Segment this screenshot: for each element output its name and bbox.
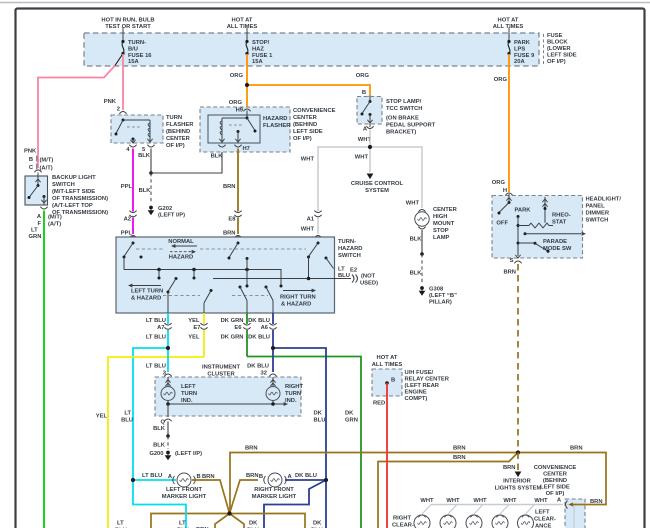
headlight switch lower contact arm bbox=[517, 242, 520, 245]
svg-text:PANEL: PANEL bbox=[586, 204, 606, 210]
svg-text:CRUISE CONTROL: CRUISE CONTROL bbox=[351, 181, 404, 187]
svg-text:ALL TIMES: ALL TIMES bbox=[227, 24, 258, 30]
svg-text:G202: G202 bbox=[158, 206, 172, 212]
connector at pin 4 bbox=[129, 145, 136, 147]
connector at stop lamp switch A bbox=[366, 126, 373, 128]
svg-text:PILLAR): PILLAR) bbox=[429, 300, 452, 306]
svg-text:20A: 20A bbox=[514, 59, 525, 65]
svg-text:LEFT TURN: LEFT TURN bbox=[131, 289, 163, 295]
instrument cluster box bbox=[155, 377, 301, 416]
svg-text:BRN: BRN bbox=[246, 473, 259, 479]
svg-text:HIGH: HIGH bbox=[433, 214, 448, 220]
svg-text:DK: DK bbox=[313, 521, 322, 527]
svg-text:RIGHT TURN: RIGHT TURN bbox=[280, 295, 316, 301]
svg-text:PEDAL SUPPORT: PEDAL SUPPORT bbox=[386, 123, 436, 129]
svg-text:& HAZARD: & HAZARD bbox=[281, 302, 311, 308]
svg-text:ORG: ORG bbox=[494, 77, 508, 83]
svg-text:STOP LAMP/: STOP LAMP/ bbox=[386, 99, 422, 105]
svg-text:DK BLU: DK BLU bbox=[248, 335, 270, 341]
switch arm (BRN feed) bbox=[237, 242, 240, 245]
cluster ground bus bbox=[168, 403, 284, 405]
svg-text:OF I/P): OF I/P) bbox=[293, 136, 312, 142]
connector at pin H7 bbox=[234, 145, 241, 147]
svg-text:YEL: YEL bbox=[188, 335, 200, 341]
svg-text:HOT AT: HOT AT bbox=[232, 18, 253, 24]
wire LT BLU to cluster pin 3 bbox=[167, 348, 169, 372]
connector at backup light switch input bbox=[34, 170, 41, 172]
wire BLK dashed to G200 bbox=[167, 436, 169, 449]
svg-text:DK: DK bbox=[345, 411, 354, 417]
switch arm to pin A6 bbox=[265, 286, 268, 289]
svg-text:USED): USED) bbox=[360, 281, 378, 287]
switch arm (PPL feed) bbox=[132, 242, 135, 245]
hazard position dashed track bbox=[136, 248, 164, 250]
svg-text:STOP: STOP bbox=[433, 228, 449, 234]
svg-text:B: B bbox=[29, 157, 33, 163]
svg-text:TURN-: TURN- bbox=[338, 239, 356, 245]
wire LT BLU branch to left front marker bbox=[133, 348, 168, 480]
U/H fuse/relay center box bbox=[372, 369, 402, 396]
svg-text:WHT: WHT bbox=[503, 498, 517, 504]
page top edge line bbox=[0, 2, 650, 4]
wire BLK cluster to splice bbox=[167, 422, 169, 437]
svg-text:RELAY CENTER: RELAY CENTER bbox=[405, 377, 450, 383]
svg-text:BRN: BRN bbox=[223, 184, 236, 190]
svg-text:ALL TIMES: ALL TIMES bbox=[493, 24, 524, 30]
connector at hazard BLK pin bbox=[218, 145, 225, 147]
svg-text:HAZARD: HAZARD bbox=[169, 255, 193, 261]
wire BRN left front marker to hub bbox=[192, 480, 230, 514]
connector at CHMSL top bbox=[418, 210, 425, 212]
svg-text:DK BLU: DK BLU bbox=[295, 473, 317, 479]
lamp DS2 right turn indicator bbox=[272, 377, 274, 386]
svg-text:(NOT: (NOT bbox=[361, 274, 376, 280]
wire BLK dashed to G202 bbox=[150, 173, 152, 204]
connector A2 bbox=[129, 211, 136, 217]
svg-text:A7: A7 bbox=[157, 325, 164, 331]
wire DK GRN to right rear bbox=[247, 357, 361, 528]
svg-text:BRN: BRN bbox=[223, 231, 236, 237]
svg-text:15A: 15A bbox=[252, 59, 263, 65]
connector at backup light switch output bbox=[40, 207, 47, 209]
svg-text:PPL: PPL bbox=[121, 231, 133, 237]
svg-text:RIGHT FRONT: RIGHT FRONT bbox=[254, 487, 294, 493]
svg-text:(A/T-LEFT TOP: (A/T-LEFT TOP bbox=[52, 203, 93, 209]
switch arm to pin E6 bbox=[239, 286, 242, 289]
svg-text:BLU: BLU bbox=[314, 418, 326, 424]
stop lamp/TCC switch S2 box bbox=[357, 97, 382, 125]
svg-text:E8: E8 bbox=[228, 217, 236, 223]
svg-text:H7: H7 bbox=[243, 146, 250, 152]
junction BLK splice bbox=[166, 434, 170, 438]
svg-text:LPS: LPS bbox=[514, 47, 525, 53]
svg-text:TURN-: TURN- bbox=[128, 40, 146, 46]
svg-text:BACKUP LIGHT: BACKUP LIGHT bbox=[52, 175, 96, 181]
wire DK BLU main down bbox=[325, 480, 327, 528]
arrow to interior lights system bbox=[515, 472, 522, 478]
svg-text:32: 32 bbox=[261, 371, 267, 377]
svg-text:OF I/P): OF I/P) bbox=[546, 491, 565, 497]
svg-text:HOT AT: HOT AT bbox=[498, 18, 519, 24]
fuse block location label bbox=[543, 34, 545, 65]
svg-text:S: S bbox=[510, 258, 514, 264]
svg-text:(LEFT I/P): (LEFT I/P) bbox=[158, 213, 185, 219]
svg-text:H: H bbox=[503, 188, 507, 194]
switch common bus bbox=[124, 270, 281, 287]
turn flasher internals bbox=[122, 119, 125, 122]
stop lamp switch internals bbox=[369, 97, 371, 102]
wire BRN into switch bbox=[237, 236, 239, 243]
svg-text:FUSE: FUSE bbox=[547, 33, 563, 39]
svg-text:B/U: B/U bbox=[128, 47, 138, 53]
svg-text:GRN: GRN bbox=[29, 234, 42, 240]
svg-text:Q: Q bbox=[160, 420, 165, 426]
switch arm to pin E7 bbox=[210, 289, 213, 292]
hazard flasher internals bbox=[246, 111, 248, 119]
svg-text:BRN: BRN bbox=[453, 446, 466, 452]
svg-text:DK GRN: DK GRN bbox=[221, 335, 244, 341]
wire PNK from fuse 16 to backup light switch bbox=[115, 54, 123, 66]
label RIGHT TURN & HAZARD with arrow bbox=[283, 290, 312, 292]
headlight switch parade mode contact bbox=[524, 232, 527, 235]
lamp DS9 clearance lamp 5 bbox=[526, 505, 535, 515]
fuse F1 STOP/HAZ 15A bbox=[246, 28, 248, 42]
lamp DS7 clearance lamp 3 bbox=[474, 505, 483, 515]
svg-text:FLASHER: FLASHER bbox=[263, 123, 291, 129]
svg-text:COMPT): COMPT) bbox=[405, 396, 428, 402]
svg-text:INTERIOR: INTERIOR bbox=[503, 479, 532, 485]
svg-text:DK BLU: DK BLU bbox=[247, 364, 269, 370]
svg-text:YEL: YEL bbox=[188, 318, 200, 324]
svg-text:WHT: WHT bbox=[446, 498, 460, 504]
svg-text:DK BLU: DK BLU bbox=[248, 318, 270, 324]
switch arm (WHT feed) bbox=[317, 242, 320, 245]
svg-text:OF TRANSMISSION): OF TRANSMISSION) bbox=[52, 196, 108, 202]
junction ORG splice bbox=[245, 83, 249, 87]
svg-text:HOT IN RUN, BULB: HOT IN RUN, BULB bbox=[101, 18, 154, 24]
svg-text:LT: LT bbox=[124, 411, 131, 417]
svg-text:BLK: BLK bbox=[153, 443, 166, 449]
wire BRN hub stub right rear bbox=[230, 514, 245, 528]
svg-text:CLEAR-: CLEAR- bbox=[392, 523, 414, 528]
svg-text:A1: A1 bbox=[307, 217, 315, 223]
svg-text:SWITCH: SWITCH bbox=[586, 218, 609, 224]
svg-text:B: B bbox=[197, 474, 201, 480]
ground G308 bbox=[420, 286, 424, 290]
wire BRN arrow into convenience pin A bbox=[573, 504, 585, 506]
svg-text:WHT: WHT bbox=[301, 157, 315, 163]
connector at switch PPL pin bbox=[129, 236, 136, 238]
svg-text:ORG: ORG bbox=[229, 100, 243, 106]
wire DK BLU branch to right front marker bbox=[273, 348, 326, 480]
svg-text:BLU: BLU bbox=[338, 273, 350, 279]
wire DK BLU to cluster pin 32 bbox=[272, 348, 274, 372]
headlight switch rheostat bbox=[518, 225, 529, 227]
svg-text:BRN: BRN bbox=[570, 446, 583, 452]
wire PPL turn flasher to switch bbox=[132, 149, 134, 212]
svg-text:G200: G200 bbox=[149, 451, 163, 457]
svg-text:(BEHIND: (BEHIND bbox=[543, 478, 567, 484]
svg-text:PARADE: PARADE bbox=[543, 239, 567, 245]
convenience center box (bottom) bbox=[565, 499, 585, 528]
svg-text:BRN: BRN bbox=[453, 455, 466, 461]
bus contact stubs bbox=[158, 270, 160, 278]
svg-text:F: F bbox=[37, 221, 41, 227]
svg-text:E6: E6 bbox=[234, 325, 242, 331]
svg-text:LT BLU: LT BLU bbox=[146, 318, 166, 324]
convenience center box (hazard flasher) bbox=[200, 107, 290, 152]
wire ORG junction to hazard flasher H9 bbox=[246, 85, 248, 108]
wire YEL to left rear bbox=[108, 357, 204, 528]
svg-text:DK: DK bbox=[314, 411, 323, 417]
svg-text:TEST OR START: TEST OR START bbox=[105, 24, 151, 30]
svg-text:BLK: BLK bbox=[153, 426, 166, 432]
svg-text:LT BLU: LT BLU bbox=[146, 335, 166, 341]
svg-text:LEFT SIDE: LEFT SIDE bbox=[293, 129, 323, 135]
svg-text:LEFT SIDE: LEFT SIDE bbox=[547, 53, 577, 59]
svg-text:CONVENIENCE: CONVENIENCE bbox=[534, 465, 577, 471]
svg-text:(M/T): (M/T) bbox=[40, 158, 54, 164]
svg-text:(BEHIND: (BEHIND bbox=[166, 129, 190, 135]
svg-text:BRN: BRN bbox=[590, 499, 603, 505]
svg-text:GRN: GRN bbox=[345, 418, 358, 424]
svg-text:LAMP: LAMP bbox=[433, 235, 450, 241]
svg-text:PPL: PPL bbox=[121, 184, 133, 190]
svg-text:STOP/: STOP/ bbox=[252, 40, 270, 46]
svg-text:HAZ: HAZ bbox=[252, 47, 264, 53]
wire LT BLU to left front marker bbox=[133, 479, 176, 481]
svg-text:& HAZARD: & HAZARD bbox=[131, 296, 161, 302]
svg-text:CENTER: CENTER bbox=[543, 472, 568, 478]
svg-text:HEADLIGHT/: HEADLIGHT/ bbox=[586, 197, 622, 203]
svg-text:TURN: TURN bbox=[181, 391, 197, 397]
svg-text:SYSTEM: SYSTEM bbox=[365, 188, 389, 194]
svg-text:LT: LT bbox=[179, 521, 186, 527]
svg-text:LEFT: LEFT bbox=[535, 510, 550, 516]
svg-text:LIGHTS SYSTEM: LIGHTS SYSTEM bbox=[495, 486, 542, 492]
svg-text:BLK: BLK bbox=[410, 237, 423, 243]
wire BLK dashed to G308 bbox=[421, 254, 423, 285]
svg-text:(M/T-LEFT SIDE: (M/T-LEFT SIDE bbox=[52, 189, 95, 195]
lower hazard dashed tracks bbox=[163, 295, 200, 297]
wire PNK from fuse 16 to turn flasher pin 2 bbox=[122, 54, 124, 110]
svg-text:TCC SWITCH: TCC SWITCH bbox=[386, 106, 422, 112]
svg-text:RED: RED bbox=[373, 401, 385, 407]
junction BRN marker hub bbox=[227, 511, 231, 515]
connector at H9 bbox=[243, 109, 250, 111]
svg-text:ORG: ORG bbox=[492, 180, 506, 186]
svg-text:(LEFT I/P): (LEFT I/P) bbox=[175, 451, 202, 457]
svg-text:RIGHT: RIGHT bbox=[285, 384, 303, 390]
svg-text:SWITCH: SWITCH bbox=[338, 253, 361, 259]
wire BRN dashed stub to interior lights bbox=[517, 453, 519, 471]
svg-text:NORMAL: NORMAL bbox=[168, 239, 194, 245]
fuse F9 PARK LPS 20A bbox=[508, 28, 510, 42]
svg-text:G308: G308 bbox=[429, 287, 444, 293]
svg-text:15A: 15A bbox=[128, 59, 139, 65]
svg-text:TURN: TURN bbox=[285, 391, 301, 397]
svg-text:CENTER: CENTER bbox=[166, 136, 191, 142]
wire WHT splice to center high mount stop lamp bbox=[370, 147, 422, 208]
pin Q output bbox=[167, 404, 169, 417]
svg-text:BLOCK: BLOCK bbox=[547, 40, 568, 46]
label HAZARD with dashed arrow bbox=[170, 251, 192, 253]
svg-text:PARK: PARK bbox=[515, 208, 532, 214]
svg-text:E2: E2 bbox=[350, 268, 357, 274]
svg-text:TURN: TURN bbox=[166, 115, 182, 121]
svg-text:DK GRN: DK GRN bbox=[221, 318, 244, 324]
wire BRN hazard flasher H7 down bbox=[237, 149, 239, 212]
svg-text:LT: LT bbox=[31, 228, 38, 234]
svg-text:HOT AT: HOT AT bbox=[377, 355, 398, 361]
connector at convenience pin A bbox=[566, 501, 568, 509]
svg-text:(A/T): (A/T) bbox=[48, 222, 61, 228]
svg-text:B: B bbox=[259, 474, 263, 480]
junction LT BLU splice bbox=[166, 346, 170, 350]
svg-text:ORG: ORG bbox=[356, 73, 370, 79]
wire BRN feed line 1 bbox=[230, 453, 518, 514]
svg-text:WHT: WHT bbox=[301, 227, 315, 233]
turn-hazard switch S4 box bbox=[116, 237, 335, 313]
svg-text:LEFT: LEFT bbox=[181, 384, 196, 390]
wire BRN dashed headlight switch to tail splice bbox=[517, 264, 519, 448]
wire BRN to convenience center bbox=[518, 453, 606, 505]
connector at cluster pin 3 bbox=[164, 374, 171, 376]
svg-text:BLK: BLK bbox=[211, 154, 224, 160]
wire BLK hazard flasher ground leg bbox=[151, 149, 222, 174]
connector at switch BRN pin bbox=[234, 236, 241, 238]
svg-text:IND.: IND. bbox=[285, 398, 297, 404]
svg-text:(A/T): (A/T) bbox=[40, 166, 53, 172]
wire PPL into switch bbox=[132, 236, 134, 243]
svg-text:DIMMER: DIMMER bbox=[586, 211, 610, 217]
svg-text:E7: E7 bbox=[193, 325, 200, 331]
switch output bus to E2 bbox=[213, 278, 335, 280]
wire BLK CHMSL to splice bbox=[421, 230, 423, 254]
wire BLK from pin 5 to ground splice bbox=[150, 149, 152, 174]
turn flasher U1 box bbox=[111, 115, 163, 143]
svg-text:A2: A2 bbox=[124, 217, 131, 223]
wire DK BLU branch to right rear bbox=[264, 480, 326, 528]
connector at pin 5 bbox=[147, 145, 154, 147]
svg-text:CENTER: CENTER bbox=[293, 115, 318, 121]
svg-text:ORG: ORG bbox=[230, 73, 244, 79]
svg-text:LEFT SIDE: LEFT SIDE bbox=[540, 485, 570, 491]
svg-text:B: B bbox=[362, 90, 366, 96]
lamp DS5 clearance lamp 1 bbox=[422, 505, 431, 515]
wire BRN right front marker to hub bbox=[230, 480, 259, 514]
svg-text:BRACKET): BRACKET) bbox=[386, 130, 416, 136]
junction DK BLU splice bbox=[271, 346, 275, 350]
svg-text:ANCE: ANCE bbox=[535, 524, 552, 528]
svg-text:INSTRUMENT: INSTRUMENT bbox=[202, 365, 240, 371]
svg-text:BLU: BLU bbox=[121, 418, 133, 424]
connector A1 bbox=[314, 211, 321, 217]
svg-text:IND.: IND. bbox=[181, 398, 193, 404]
ground G200 bbox=[166, 451, 170, 455]
connector at headlight switch H bbox=[505, 193, 512, 195]
switch arm to pin A7 bbox=[175, 277, 178, 280]
junction BRN tail splice bbox=[516, 450, 520, 454]
svg-text:CENTER: CENTER bbox=[433, 207, 458, 213]
svg-text:HAZARD: HAZARD bbox=[338, 246, 362, 252]
svg-text:RHEO-: RHEO- bbox=[552, 213, 571, 219]
junction LT BLU marker splice bbox=[131, 478, 135, 482]
wire BRN hub cross line bbox=[151, 514, 305, 528]
svg-text:WHT: WHT bbox=[473, 498, 487, 504]
svg-text:LEFT FRONT: LEFT FRONT bbox=[166, 487, 203, 493]
svg-text:MARKER LIGHT: MARKER LIGHT bbox=[252, 494, 297, 500]
svg-text:2: 2 bbox=[117, 107, 120, 113]
svg-text:STAT: STAT bbox=[552, 220, 567, 226]
svg-text:MARKER LIGHT: MARKER LIGHT bbox=[162, 494, 207, 500]
svg-text:BLK: BLK bbox=[138, 153, 151, 159]
svg-text:BRN: BRN bbox=[202, 474, 215, 480]
connector at CHMSL bottom bbox=[418, 227, 425, 229]
svg-text:LT BLU: LT BLU bbox=[146, 364, 166, 370]
svg-text:WHT: WHT bbox=[355, 155, 369, 161]
label LEFT TURN & HAZARD with arrow bbox=[131, 285, 161, 287]
svg-text:LT: LT bbox=[117, 521, 124, 527]
switch centre vertical contact bbox=[246, 257, 249, 260]
arrow to cruise control system bbox=[367, 174, 374, 180]
svg-text:CLEAR-: CLEAR- bbox=[534, 517, 556, 523]
junction BLK splice bbox=[420, 252, 424, 256]
svg-text:RIGHT: RIGHT bbox=[393, 516, 411, 522]
backup light switch internals bbox=[37, 176, 39, 184]
connector at headlight switch S bbox=[514, 261, 521, 263]
svg-text:CONVENIENCE: CONVENIENCE bbox=[293, 108, 336, 114]
headlight switch internals - off/park contacts bbox=[508, 194, 510, 202]
svg-text:(ON BRAKE: (ON BRAKE bbox=[386, 116, 419, 122]
wire WHT splice to cruise control bbox=[369, 147, 371, 172]
wire WHT splice to A1 connector bbox=[318, 147, 370, 212]
lamp DS4 right front marker light bbox=[264, 476, 287, 484]
svg-text:OF I/P): OF I/P) bbox=[166, 143, 185, 149]
svg-text:(BEHIND: (BEHIND bbox=[293, 122, 317, 128]
wire WHT into switch bbox=[317, 236, 319, 243]
svg-text:MOUNT: MOUNT bbox=[433, 221, 455, 227]
svg-text:SWITCH: SWITCH bbox=[52, 182, 75, 188]
svg-text:LT BLU: LT BLU bbox=[142, 473, 162, 479]
junction DK BLU marker splice bbox=[324, 478, 328, 482]
svg-text:WHT: WHT bbox=[406, 201, 420, 207]
connector at stop lamp switch B bbox=[366, 96, 373, 98]
svg-text:PNK: PNK bbox=[24, 149, 37, 155]
connector E8 bbox=[234, 211, 241, 217]
fuse F16 TURN-B/U 15A bbox=[122, 28, 124, 42]
wire WHT clearance lamp bus bbox=[431, 504, 563, 506]
lamp DS8 clearance lamp 4 bbox=[500, 505, 509, 515]
svg-text:BRN: BRN bbox=[503, 465, 516, 471]
svg-text:WHT: WHT bbox=[420, 498, 434, 504]
svg-text:H9: H9 bbox=[236, 108, 244, 114]
wire ORG junction to stop lamp switch bbox=[247, 85, 370, 95]
connector at switch WHT pin bbox=[314, 236, 321, 238]
svg-text:(LEFT REAR: (LEFT REAR bbox=[405, 383, 440, 389]
splice junction S (turn+hazard flasher grounds) bbox=[149, 171, 153, 175]
hazard flasher U2 inner box bbox=[208, 115, 260, 143]
lamp DS3 left front marker light bbox=[173, 476, 196, 484]
wire LT BLU to left rear bbox=[133, 480, 186, 528]
lamp E1 center high mount stop lamp bbox=[415, 212, 429, 226]
fuse block box bbox=[84, 33, 539, 66]
svg-text:(M/T): (M/T) bbox=[48, 215, 62, 221]
svg-text:OFF: OFF bbox=[496, 221, 508, 227]
wire RED down bbox=[386, 383, 388, 528]
svg-text:B: B bbox=[391, 378, 395, 384]
wire BRN feed line 2 to right clearance lamps bbox=[378, 453, 518, 528]
